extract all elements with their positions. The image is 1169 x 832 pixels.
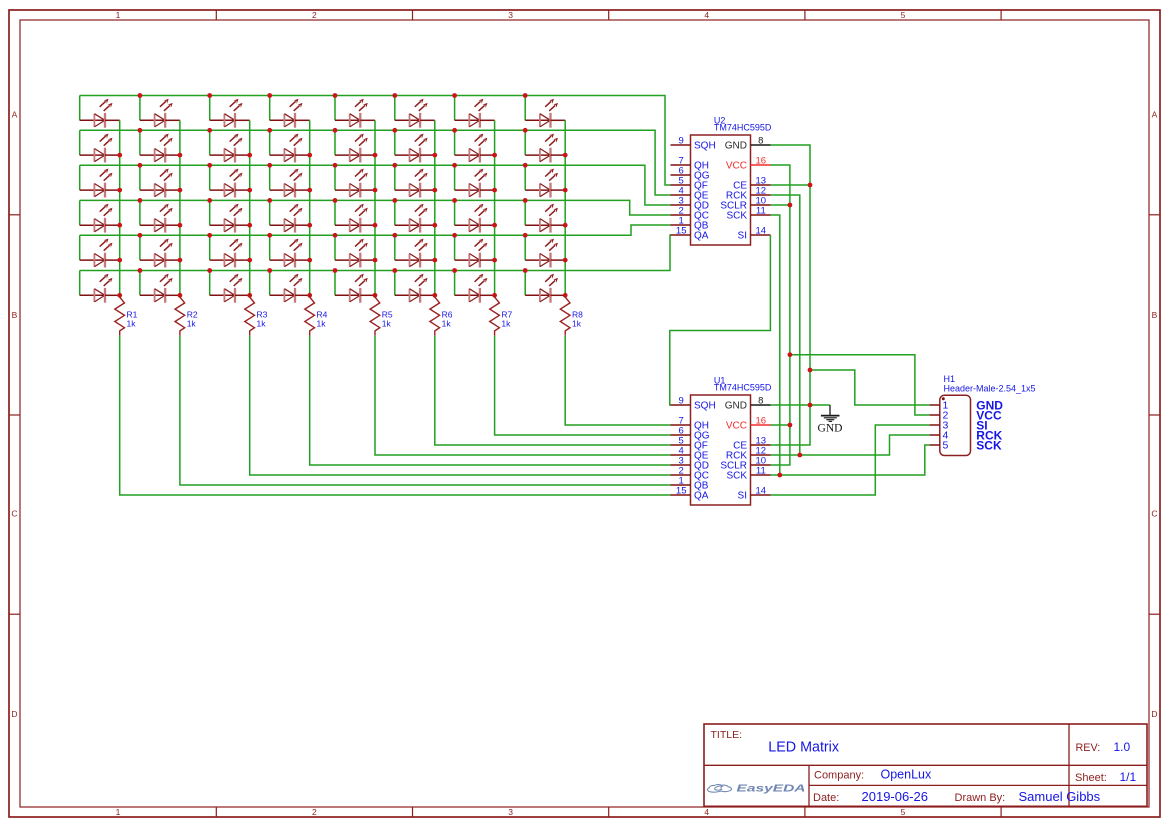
svg-text:C: C (1151, 509, 1157, 519)
svg-text:GND: GND (818, 423, 843, 435)
junction cathode row 6 col 2 (178, 293, 183, 298)
junction cathode row 6 col 7 (492, 293, 497, 298)
junction cathode row 6 col 6 (432, 293, 437, 298)
H1 pin 2 (930, 410, 949, 422)
wire U1.RCK to RCK net (770, 454, 799, 456)
U2 pin 16 VCC (726, 156, 771, 172)
svg-text:5: 5 (943, 440, 949, 452)
U2 pin 13 CE (733, 176, 770, 192)
junction cathode row 4 col 5 (373, 223, 378, 228)
junction row 4 col 8 (523, 198, 528, 203)
LED row 1 col 1 (80, 96, 120, 128)
EasyEDA logo (708, 784, 732, 792)
LED row 4 col 4 (270, 200, 310, 232)
svg-text:1k: 1k (257, 319, 267, 329)
H1 pin 5 (930, 440, 949, 452)
wire row 4 net to U2 QC (80, 200, 671, 215)
junction row 1 col 8 (523, 93, 528, 98)
LED row 5 col 3 (210, 235, 250, 267)
junction cathode row 3 col 6 (432, 188, 437, 193)
junction row 2 col 8 (523, 128, 528, 133)
junction cathode row 5 col 8 (563, 258, 568, 263)
H1 pin 3 (930, 420, 949, 432)
junction row 1 col 3 (207, 93, 212, 98)
svg-text:4: 4 (704, 807, 709, 817)
svg-text:3: 3 (508, 10, 513, 20)
junction row 3 col 2 (138, 163, 143, 168)
resistor R6 (430, 295, 440, 336)
U2 pin 1 QB (671, 216, 709, 232)
resistor R5 (370, 295, 380, 336)
U2 pin 14 SI (738, 226, 771, 242)
svg-text:1k: 1k (187, 319, 197, 329)
junction row 4 col 2 (138, 198, 143, 203)
junction cathode row 3 col 8 (563, 188, 568, 193)
U1 pin 6 QG (671, 426, 710, 442)
U2 pin 3 QD (671, 196, 710, 212)
LED row 1 col 5 (335, 96, 375, 128)
U2 pin 11 SCK (726, 206, 770, 222)
LED row 6 col 5 (335, 271, 375, 303)
wire U1.VCC to VCC net (770, 424, 790, 426)
junction cathode row 5 col 7 (492, 258, 497, 263)
svg-text:OpenLux: OpenLux (881, 768, 932, 782)
junction U2.SCLR/VCC (788, 203, 793, 208)
svg-text:8: 8 (758, 396, 763, 407)
svg-text:VCC: VCC (726, 421, 747, 432)
U1 pin 16 VCC (726, 416, 771, 432)
junction cathode row 4 col 2 (178, 223, 183, 228)
svg-text:15: 15 (676, 226, 687, 237)
LED row 5 col 2 (140, 235, 180, 267)
svg-text:D: D (1151, 709, 1157, 719)
junction row 2 col 7 (452, 128, 457, 133)
junction U1.RCK/RCK (797, 453, 802, 458)
junction cathode row 5 col 5 (373, 258, 378, 263)
junction row 3 col 8 (523, 163, 528, 168)
wire VCC net to H1.2 (790, 355, 930, 415)
LED row 3 col 2 (140, 165, 180, 197)
title block (704, 724, 1147, 806)
svg-text:H1: H1 (944, 374, 956, 384)
LED row 2 col 3 (210, 130, 250, 162)
junction cathode row 3 col 5 (373, 188, 378, 193)
svg-text:GND: GND (725, 401, 747, 412)
junction cathode row 3 col 3 (247, 188, 252, 193)
junction cathode row 6 col 1 (117, 293, 122, 298)
svg-text:SCK: SCK (976, 438, 1002, 452)
LED row 3 col 8 (525, 165, 565, 197)
U1 pin 9 SQH (671, 396, 716, 412)
wire RCK net U2.RCK to H1.4 (770, 195, 929, 455)
svg-text:QA: QA (694, 491, 709, 502)
U1 pin 10 SCLR (720, 456, 770, 472)
U2 pin 5 QF (671, 176, 708, 192)
U1 pin 14 SI (738, 486, 771, 502)
junction row 4 col 5 (333, 198, 338, 203)
junction cathode row 5 col 6 (432, 258, 437, 263)
junction row 3 col 4 (267, 163, 272, 168)
LED row 3 col 1 (80, 165, 120, 197)
U2 pin 10 SCLR (720, 196, 770, 212)
resistor R2 (175, 295, 185, 336)
LED row 4 col 7 (455, 200, 495, 232)
U1 pin 5 QF (671, 436, 708, 452)
svg-text:D: D (11, 709, 17, 719)
junction VCC branch H1.2 (788, 352, 793, 357)
wire column 7 cathode bus (494, 120, 496, 295)
LED row 6 col 2 (140, 271, 180, 303)
svg-text:Header-Male-2.54_1x5: Header-Male-2.54_1x5 (944, 383, 1036, 393)
LED row 2 col 2 (140, 130, 180, 162)
wire column 1 cathode bus (119, 120, 121, 295)
svg-text:SCK: SCK (726, 211, 747, 222)
junction cathode row 5 col 4 (307, 258, 312, 263)
junction row 6 col 3 (207, 268, 212, 273)
U2 pin 12 RCK (726, 186, 771, 202)
U1 pin 3 QD (671, 456, 710, 472)
LED row 6 col 8 (525, 271, 565, 303)
U2 pin 4 QE (671, 186, 709, 202)
LED row 5 col 1 (80, 235, 120, 267)
svg-text:A: A (1152, 110, 1158, 120)
junction cathode row 2 col 3 (247, 153, 252, 158)
svg-text:1.0: 1.0 (1114, 740, 1131, 754)
svg-text:Drawn By:: Drawn By: (955, 792, 1006, 804)
LED row 1 col 8 (525, 96, 565, 128)
U2 pin 8 GND (725, 136, 771, 152)
LED row 2 col 5 (335, 130, 375, 162)
resistor R4 (305, 295, 315, 336)
svg-text:A: A (12, 110, 18, 120)
junction row 5 col 5 (333, 233, 338, 238)
resistor R8 (560, 295, 570, 336)
wire U1.SCK to SCK net (770, 474, 779, 476)
U2 pin 2 QC (671, 206, 710, 222)
connector H1 body (940, 395, 971, 455)
LED row 2 col 1 (80, 130, 120, 162)
wire SCK net U2.SCK to H1.5 (770, 215, 929, 475)
resistor R3 (245, 295, 255, 336)
LED row 4 col 1 (80, 200, 120, 232)
wire column 6 cathode bus (434, 120, 436, 295)
LED row 1 col 4 (270, 96, 310, 128)
svg-text:GND: GND (725, 141, 747, 152)
svg-text:1: 1 (116, 807, 121, 817)
svg-text:3: 3 (508, 807, 513, 817)
junction cathode row 3 col 4 (307, 188, 312, 193)
U1 pin 1 QB (671, 476, 709, 492)
wire R4 to U1 (310, 336, 671, 465)
U1 pin 15 QA (671, 486, 709, 502)
junction row 2 col 4 (267, 128, 272, 133)
U2 pin 9 SQH (671, 136, 716, 152)
svg-text:11: 11 (756, 206, 766, 217)
svg-text:1k: 1k (127, 319, 137, 329)
svg-text:1k: 1k (442, 319, 452, 329)
svg-text:TM74HC595D: TM74HC595D (714, 382, 772, 392)
LED row 1 col 6 (395, 96, 435, 128)
LED row 1 col 3 (210, 96, 250, 128)
junction row 1 col 4 (267, 93, 272, 98)
wire U1.SI to H1.3 (770, 425, 929, 495)
junction row 5 col 8 (523, 233, 528, 238)
svg-text:SQH: SQH (694, 401, 716, 412)
junction row 6 col 4 (267, 268, 272, 273)
LED row 1 col 2 (140, 96, 180, 128)
LED row 5 col 4 (270, 235, 310, 267)
U2 pin 6 QG (671, 166, 710, 182)
junction cathode row 4 col 6 (432, 223, 437, 228)
svg-text:C: C (11, 509, 17, 519)
svg-text:VCC: VCC (726, 161, 747, 172)
junction row 5 col 2 (138, 233, 143, 238)
IC U2 TM74HC595D body (691, 135, 751, 245)
junction cathode row 2 col 1 (117, 153, 122, 158)
junction cathode row 2 col 5 (373, 153, 378, 158)
LED row 6 col 7 (455, 271, 495, 303)
U2 pin 7 QH (671, 156, 710, 172)
svg-text:Samuel Gibbs: Samuel Gibbs (1019, 789, 1101, 804)
junction row 5 col 6 (392, 233, 397, 238)
svg-text:14: 14 (756, 486, 767, 497)
wire GND net U2.GND down to U1.CE (770, 145, 810, 445)
U1 pin 11 SCK (726, 466, 770, 482)
LED row 3 col 6 (395, 165, 435, 197)
junction row 5 col 4 (267, 233, 272, 238)
LED row 3 col 3 (210, 165, 250, 197)
svg-text:SI: SI (738, 491, 747, 502)
LED row 2 col 8 (525, 130, 565, 162)
junction row 4 col 6 (392, 198, 397, 203)
LED row 5 col 8 (525, 235, 565, 267)
svg-text:LED Matrix: LED Matrix (768, 740, 839, 756)
svg-text:TM74HC595D: TM74HC595D (714, 122, 772, 132)
LED row 4 col 8 (525, 200, 565, 232)
LED row 2 col 4 (270, 130, 310, 162)
U1 pin 4 QE (671, 446, 709, 462)
junction row 5 col 3 (207, 233, 212, 238)
svg-text:REV:: REV: (1076, 742, 1101, 754)
wire row 5 net to U2 QB (80, 225, 671, 235)
junction row 2 col 2 (138, 128, 143, 133)
junction cathode row 4 col 7 (492, 223, 497, 228)
junction cathode row 2 col 4 (307, 153, 312, 158)
U1 pin 8 GND (725, 396, 771, 412)
wire R7 to U1 (495, 336, 671, 435)
svg-text:9: 9 (679, 136, 684, 147)
svg-text:15: 15 (676, 486, 687, 497)
LED row 4 col 2 (140, 200, 180, 232)
svg-text:Company:: Company: (814, 770, 864, 782)
junction row 6 col 7 (452, 268, 457, 273)
junction cathode row 6 col 5 (373, 293, 378, 298)
LED row 1 col 7 (455, 96, 495, 128)
svg-text:B: B (12, 310, 18, 320)
junction cathode row 2 col 7 (492, 153, 497, 158)
svg-text:1k: 1k (501, 319, 511, 329)
wire R8 to U1 (565, 336, 670, 425)
junction cathode row 6 col 8 (563, 293, 568, 298)
wire column 2 cathode bus (179, 120, 181, 295)
wire U2.CE to GND net (770, 184, 810, 186)
junction cathode row 4 col 8 (563, 223, 568, 228)
H1 pin1 marker (942, 397, 945, 400)
junction cathode row 5 col 2 (178, 258, 183, 263)
junction GND branch H1.1 (808, 368, 813, 373)
resistor R1 (115, 295, 125, 336)
junction row 2 col 5 (333, 128, 338, 133)
wire cascade U2.SI to U1.SQH (670, 235, 771, 405)
junction row 6 col 2 (138, 268, 143, 273)
svg-text:1/1: 1/1 (1120, 770, 1137, 784)
junction row 2 col 3 (207, 128, 212, 133)
LED row 5 col 6 (395, 235, 435, 267)
wire U2.SCLR to VCC net (770, 204, 790, 206)
H1 pin 1 (930, 400, 949, 412)
ground symbol (821, 405, 840, 421)
U2 pin 15 QA (671, 226, 709, 242)
svg-text:SCK: SCK (726, 471, 747, 482)
junction row 6 col 8 (523, 268, 528, 273)
junction cathode row 3 col 7 (492, 188, 497, 193)
svg-text:2: 2 (312, 807, 317, 817)
wire row 3 net to U2 QD (80, 165, 671, 205)
svg-text:SQH: SQH (694, 141, 716, 152)
svg-text:16: 16 (756, 156, 767, 167)
junction cathode row 3 col 1 (117, 188, 122, 193)
svg-text:SI: SI (738, 231, 747, 242)
svg-text:EasyEDA: EasyEDA (737, 783, 806, 795)
svg-text:11: 11 (756, 466, 766, 477)
junction row 3 col 5 (333, 163, 338, 168)
LED row 6 col 1 (80, 271, 120, 303)
LED row 2 col 7 (455, 130, 495, 162)
U1 pin 13 CE (733, 436, 770, 452)
LED row 5 col 7 (455, 235, 495, 267)
junction U1.VCC/VCC (788, 423, 793, 428)
svg-text:QA: QA (694, 231, 709, 242)
svg-text:2: 2 (312, 10, 317, 20)
wire R1 to U1 (120, 336, 671, 495)
junction row 2 col 6 (392, 128, 397, 133)
junction U1.SCK/SCK (777, 473, 782, 478)
svg-text:8: 8 (758, 136, 763, 147)
LED row 3 col 7 (455, 165, 495, 197)
junction row 1 col 2 (138, 93, 143, 98)
LED row 3 col 4 (270, 165, 310, 197)
junction row 6 col 5 (333, 268, 338, 273)
wire R2 to U1 (180, 336, 671, 485)
svg-text:5: 5 (901, 10, 906, 20)
LED row 4 col 3 (210, 200, 250, 232)
junction row 1 col 5 (333, 93, 338, 98)
U1 pin 7 QH (671, 416, 710, 432)
junction row 6 col 6 (392, 268, 397, 273)
junction cathode row 2 col 6 (432, 153, 437, 158)
svg-text:1: 1 (116, 10, 121, 20)
svg-text:9: 9 (679, 396, 684, 407)
wire R5 to U1 (375, 336, 671, 455)
LED row 6 col 4 (270, 271, 310, 303)
junction U1.GND/GND (808, 403, 813, 408)
junction row 3 col 3 (207, 163, 212, 168)
svg-text:1k: 1k (317, 319, 327, 329)
wire row 6 net to U2 QA (80, 235, 671, 271)
svg-text:14: 14 (756, 226, 767, 237)
wire column 5 cathode bus (374, 120, 376, 295)
junction cathode row 3 col 2 (178, 188, 183, 193)
resistor R7 (490, 295, 500, 336)
junction row 5 col 7 (452, 233, 457, 238)
IC U1 TM74HC595D body (691, 395, 751, 505)
junction cathode row 6 col 3 (247, 293, 252, 298)
wire row 1 net to U2 QF (80, 96, 671, 186)
svg-text:4: 4 (704, 10, 709, 20)
junction cathode row 4 col 4 (307, 223, 312, 228)
junction cathode row 5 col 3 (247, 258, 252, 263)
junction U2.CE/GND (808, 183, 813, 188)
svg-text:2019-06-26: 2019-06-26 (862, 789, 929, 804)
wire VCC net U2.VCC down to U1.SCLR (770, 165, 790, 465)
junction cathode row 2 col 8 (563, 153, 568, 158)
svg-text:Date:: Date: (813, 792, 839, 804)
junction cathode row 4 col 3 (247, 223, 252, 228)
wire row 2 net to U2 QE (80, 130, 671, 195)
U1 pin 12 RCK (726, 446, 771, 462)
svg-text:TITLE:: TITLE: (711, 729, 743, 741)
LED row 6 col 3 (210, 271, 250, 303)
wire column 3 cathode bus (249, 120, 251, 295)
junction row 1 col 6 (392, 93, 397, 98)
H1 pin 4 (930, 430, 949, 442)
LED row 2 col 6 (395, 130, 435, 162)
svg-text:1k: 1k (572, 319, 582, 329)
svg-text:16: 16 (756, 416, 767, 427)
junction row 3 col 6 (392, 163, 397, 168)
junction cathode row 2 col 2 (178, 153, 183, 158)
junction cathode row 6 col 4 (307, 293, 312, 298)
junction cathode row 4 col 1 (117, 223, 122, 228)
svg-text:B: B (1152, 310, 1158, 320)
svg-text:Sheet:: Sheet: (1075, 772, 1107, 784)
LED row 5 col 5 (335, 235, 375, 267)
junction row 4 col 3 (207, 198, 212, 203)
wire column 4 cathode bus (309, 120, 311, 295)
LED row 4 col 5 (335, 200, 375, 232)
wire column 8 cathode bus (564, 120, 566, 295)
wire R3 to U1 (250, 336, 671, 475)
junction row 3 col 7 (452, 163, 457, 168)
LED row 4 col 6 (395, 200, 435, 232)
LED row 6 col 6 (395, 271, 435, 303)
wire GND net to H1.1 (810, 370, 930, 405)
wire R6 to U1 (435, 336, 671, 445)
svg-text:5: 5 (901, 807, 906, 817)
junction row 4 col 7 (452, 198, 457, 203)
junction row 1 col 7 (452, 93, 457, 98)
svg-text:1k: 1k (382, 319, 392, 329)
LED row 3 col 5 (335, 165, 375, 197)
U1 pin 2 QC (671, 466, 710, 482)
junction row 4 col 4 (267, 198, 272, 203)
wire U1.GND to ground symbol (770, 404, 830, 406)
junction cathode row 5 col 1 (117, 258, 122, 263)
